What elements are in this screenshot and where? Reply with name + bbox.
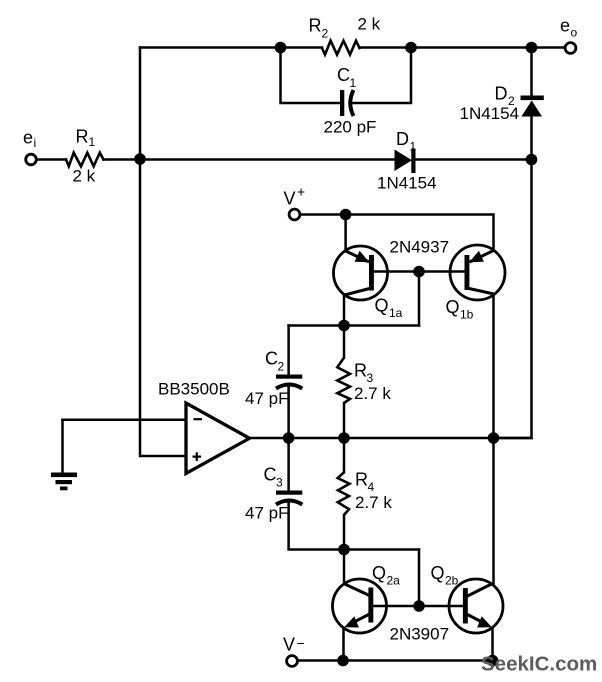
- svg-text:+: +: [297, 184, 305, 200]
- node Q2a emitter / bottom rail: [337, 655, 349, 667]
- node C2 bottom / output: [283, 432, 295, 444]
- wire R1 to D1: [104, 158, 395, 161]
- resistor R3: [337, 358, 350, 403]
- svg-text:C: C: [265, 349, 278, 369]
- wire Q1a emitter lead: [344, 215, 347, 252]
- node V+ rail / Q1a emitter: [340, 209, 352, 221]
- svg-text:1b: 1b: [460, 308, 474, 322]
- svg-text:Q: Q: [446, 297, 460, 317]
- wire Q2a emitter lead: [342, 628, 345, 661]
- wire op-amp output row: [250, 437, 532, 440]
- svg-text:3: 3: [367, 371, 374, 385]
- wire R4 leads: [343, 438, 346, 550]
- node Q2 bases: [413, 600, 425, 612]
- node R4 bottom / C3: [338, 544, 350, 556]
- node Q2b emitter / bottom rail: [487, 655, 499, 667]
- svg-text:e: e: [23, 128, 33, 148]
- svg-text:2b: 2b: [445, 574, 459, 588]
- wire Q1 base link: [374, 270, 464, 273]
- diode D1: [395, 149, 416, 174]
- op-amp U1 BB3500B: [186, 403, 250, 474]
- svg-text:D: D: [495, 84, 508, 104]
- svg-text:−: −: [297, 635, 305, 651]
- svg-text:2N4937: 2N4937: [390, 238, 450, 257]
- wire top rail left segment: [140, 46, 322, 49]
- svg-text:BB3500B: BB3500B: [158, 380, 230, 399]
- ground: [51, 473, 77, 491]
- svg-text:Q: Q: [372, 563, 386, 583]
- svg-text:V: V: [283, 635, 295, 655]
- wire ground lead: [61, 420, 64, 473]
- capacitor C1: [340, 90, 354, 116]
- resistor R2: [322, 41, 360, 55]
- terminal V+: [289, 209, 300, 220]
- wire input line e_i to R1: [38, 158, 66, 161]
- wire C3 top lead: [287, 438, 290, 490]
- wire left vertical feedback: [140, 48, 186, 457]
- resistor R4: [338, 472, 350, 515]
- wire Q2b emitter lead: [491, 629, 494, 661]
- node R3 bottom / output: [338, 432, 350, 444]
- svg-text:1N4154: 1N4154: [377, 174, 437, 193]
- svg-text:R: R: [354, 361, 367, 381]
- svg-text:4: 4: [368, 480, 375, 494]
- svg-text:47 pF: 47 pF: [245, 389, 288, 408]
- capacitor C3: [276, 491, 302, 505]
- wire top rail right segment: [360, 46, 564, 49]
- node e_i / feedback junction: [134, 153, 146, 165]
- svg-text:220 pF: 220 pF: [324, 118, 377, 137]
- wire D2 bottom lead down right side: [494, 117, 532, 438]
- svg-text:Q: Q: [375, 296, 389, 316]
- resistor R1: [66, 153, 104, 167]
- transistor Q2b: [449, 579, 503, 633]
- terminal e_i: [26, 154, 37, 165]
- wire C2 top lead: [287, 326, 290, 375]
- svg-text:2: 2: [322, 27, 329, 41]
- wire Q2 base node down: [418, 550, 421, 607]
- wire C1 branch right vertical: [351, 48, 411, 104]
- svg-text:2a: 2a: [387, 574, 401, 588]
- wire C1 branch left vertical: [281, 48, 341, 104]
- wire Q1b collector to Q2b collector vertical: [492, 295, 495, 585]
- svg-text:Q: Q: [431, 563, 445, 583]
- svg-text:2: 2: [278, 360, 285, 374]
- svg-text:1N4154: 1N4154: [460, 104, 520, 123]
- terminal V-: [287, 656, 298, 667]
- svg-text:C: C: [264, 465, 277, 485]
- wire Q1a collector lead: [343, 296, 346, 326]
- svg-text:R: R: [355, 470, 368, 490]
- svg-text:SeekIC.com: SeekIC.com: [481, 653, 597, 676]
- svg-text:2 k: 2 k: [73, 167, 96, 186]
- transistor Q1a: [334, 246, 388, 300]
- wire C2 bottom lead: [287, 385, 290, 439]
- svg-text:2.7 k: 2.7 k: [355, 493, 392, 512]
- svg-text:C: C: [337, 65, 350, 85]
- svg-text:V: V: [284, 189, 296, 209]
- wire Q2a collector lead: [343, 550, 346, 585]
- svg-text:2N3907: 2N3907: [390, 625, 450, 644]
- node top-left of R2 network: [275, 42, 287, 54]
- wire R3 leads: [343, 326, 346, 439]
- node collector line / output: [488, 432, 500, 444]
- wire Q1 base down to node: [418, 272, 421, 326]
- svg-text:i: i: [34, 136, 37, 150]
- wire bottom rail: [299, 659, 493, 662]
- svg-text:R: R: [76, 127, 89, 147]
- svg-text:e: e: [560, 16, 570, 36]
- wire node row C2/R3 top: [289, 324, 419, 327]
- capacitor C2: [276, 375, 302, 389]
- wire op-amp minus input from ground: [63, 419, 187, 422]
- svg-text:3: 3: [276, 476, 283, 490]
- svg-text:1: 1: [350, 76, 357, 90]
- node top-right of R2 network: [405, 42, 417, 54]
- wire D2 top lead: [530, 48, 533, 96]
- svg-text:1: 1: [410, 140, 417, 154]
- node Q1a collector / R3 top: [338, 320, 350, 332]
- transistor Q2a: [333, 579, 387, 633]
- svg-text:D: D: [396, 129, 409, 149]
- node Q1 bases: [413, 266, 425, 278]
- svg-text:47 pF: 47 pF: [245, 504, 288, 523]
- terminal e_o: [565, 43, 576, 54]
- svg-text:R: R: [309, 16, 322, 36]
- node D2 top: [526, 42, 538, 54]
- svg-text:1: 1: [89, 135, 96, 149]
- svg-text:1a: 1a: [389, 306, 403, 320]
- diode D2: [521, 96, 544, 117]
- svg-text:o: o: [571, 26, 578, 40]
- wire Q2 base link: [373, 605, 463, 608]
- svg-text:2.7 k: 2.7 k: [354, 384, 391, 403]
- transistor Q1b: [450, 245, 505, 300]
- wire V+ rail: [302, 215, 494, 251]
- svg-text:2 k: 2 k: [358, 15, 381, 34]
- wire C3 bottom lead: [289, 501, 419, 550]
- node D1-D2 junction: [526, 154, 538, 166]
- wire D1 to right vertical: [416, 158, 532, 161]
